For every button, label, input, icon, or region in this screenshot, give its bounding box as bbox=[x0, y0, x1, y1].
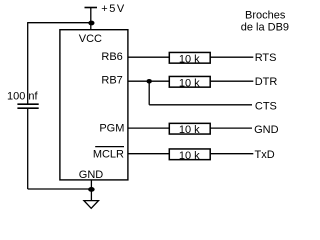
svg-text:+5V: +5V bbox=[101, 3, 126, 15]
svg-text:10 k: 10 k bbox=[179, 77, 200, 89]
svg-text:CTS: CTS bbox=[255, 101, 277, 113]
wire pin RB6 to resistor bbox=[129, 56, 170, 58]
wire +5V node to capacitor bbox=[28, 22, 91, 24]
svg-text:GND: GND bbox=[254, 124, 279, 136]
svg-text:10 k: 10 k bbox=[179, 53, 200, 65]
svg-text:TxD: TxD bbox=[255, 149, 275, 161]
svg-text:100 nf: 100 nf bbox=[7, 91, 39, 103]
wire resistor R3 to GND bbox=[210, 127, 252, 129]
wire pin MCLR to resistor bbox=[129, 153, 170, 155]
junction node at ground rail bbox=[88, 187, 95, 192]
svg-text:Broches: Broches bbox=[245, 9, 286, 21]
MCLR overline bbox=[95, 146, 124, 148]
wire resistor R2 to DTR bbox=[210, 80, 253, 82]
svg-text:DTR: DTR bbox=[255, 76, 278, 88]
svg-text:MCLR: MCLR bbox=[93, 149, 124, 161]
svg-text:RB6: RB6 bbox=[101, 51, 122, 63]
capacitor C1 bottom plate bbox=[17, 107, 38, 109]
svg-text:RB7: RB7 bbox=[101, 75, 122, 87]
resistor R4 10k (MCLR-TxD) bbox=[169, 149, 210, 160]
svg-text:PGM: PGM bbox=[99, 122, 124, 134]
ground symbol bbox=[84, 201, 99, 209]
IC U1 body (PIC) bbox=[60, 30, 128, 180]
resistor R3 10k (PGM-GND) bbox=[169, 123, 210, 134]
wire capacitor top lead bbox=[27, 22, 29, 104]
wire GND pin to ground symbol bbox=[90, 180, 92, 201]
wire bottom ground rail bbox=[28, 188, 92, 190]
svg-text:GND: GND bbox=[79, 169, 104, 181]
wire resistor R4 to TxD bbox=[210, 153, 253, 155]
capacitor C1 top plate bbox=[17, 103, 38, 105]
wire RB7 node down bbox=[148, 81, 150, 105]
junction node at +5V bbox=[88, 21, 94, 26]
wire +5V bar to VCC pin bbox=[90, 8, 92, 31]
wire to CTS bbox=[149, 104, 252, 106]
junction node at RB7 bbox=[147, 79, 152, 84]
wire pin PGM to resistor bbox=[129, 127, 170, 129]
svg-text:VCC: VCC bbox=[79, 33, 102, 45]
svg-text:de la DB9: de la DB9 bbox=[241, 21, 289, 33]
power +5V bar bbox=[85, 7, 98, 9]
resistor R1 10k (RB6-RTS) bbox=[169, 52, 210, 63]
svg-text:10 k: 10 k bbox=[179, 124, 200, 136]
wire pin RB7 to resistor bbox=[129, 80, 170, 82]
svg-text:RTS: RTS bbox=[255, 52, 277, 64]
svg-text:10 k: 10 k bbox=[179, 150, 200, 162]
resistor R2 10k (RB7-DTR) bbox=[169, 76, 210, 87]
wire resistor R1 to RTS bbox=[210, 56, 253, 58]
wire capacitor bottom lead bbox=[27, 108, 29, 189]
